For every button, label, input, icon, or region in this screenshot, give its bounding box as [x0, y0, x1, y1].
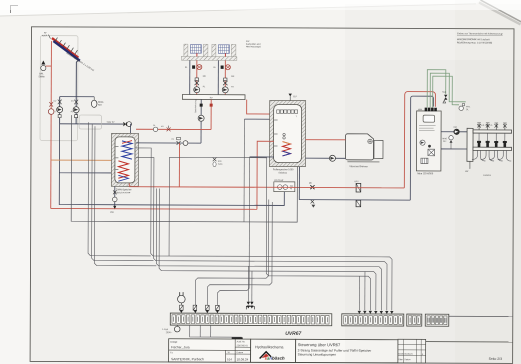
station control wires	[79, 115, 157, 266]
pump 2	[222, 87, 228, 93]
fresh water module P/L23	[274, 180, 295, 192]
svg-text:Steuerung Umwälzpumpen: Steuerung Umwälzpumpen	[298, 353, 337, 357]
taps to jumper bracket	[247, 266, 249, 302]
heat pump red loop	[404, 92, 435, 188]
svg-text:10.09.24: 10.09.24	[237, 357, 249, 361]
terminal strip group B	[342, 314, 404, 326]
stove heat exchanger 1	[190, 45, 201, 57]
pressure gauge	[459, 103, 471, 111]
big routing line	[169, 157, 267, 263]
buffer to boiler flow pipe	[306, 139, 346, 141]
svg-text:Koll.F.: Koll.F.	[42, 35, 48, 37]
earth symbol circle below strip	[162, 325, 180, 334]
terminal strip group C	[407, 314, 422, 326]
buffer left gray return	[250, 156, 274, 158]
svg-text:Hydraulikschema: Hydraulikschema	[255, 345, 284, 349]
solar station header wire	[60, 96, 94, 98]
solar pump line A (x=63.5)	[53, 97, 63, 124]
solar return from tank lower coil	[59, 124, 111, 173]
storage loading pump	[194, 100, 204, 122]
svg-text:Fischer_Jora: Fischer_Jora	[171, 345, 190, 349]
svg-text:DFL: DFL	[39, 74, 44, 76]
valve on red stove-tank pipe	[161, 126, 171, 132]
terminal strip group D	[425, 314, 449, 326]
svg-text:Solar KV: Solar KV	[107, 122, 116, 124]
stove collector box	[182, 95, 245, 100]
stove wall hatching	[181, 44, 237, 60]
svg-text:Steuerung über UVR67: Steuerung über UVR67	[298, 342, 341, 347]
electric insert row top	[277, 110, 298, 113]
terminal strip group A	[170, 313, 332, 326]
solar feed line to TWIN tank	[60, 123, 123, 125]
title block revision table	[398, 339, 426, 363]
safety valve SV	[442, 92, 447, 103]
drain on gray main	[311, 200, 316, 208]
title block logo cell	[251, 339, 296, 362]
crossing wires from module area to left terminals	[195, 199, 365, 314]
collector sensor KF	[42, 33, 51, 39]
mixer 2	[223, 81, 227, 85]
heating circuits	[472, 123, 511, 161]
orange pipe lower	[59, 173, 284, 206]
svg-text:KW: KW	[246, 41, 249, 43]
page corner fold top right	[481, 0, 521, 22]
svg-text:50 l: 50 l	[98, 105, 102, 107]
collector zone boundary	[40, 36, 78, 141]
buffer sensors	[274, 120, 278, 146]
svg-text:514: 514	[227, 357, 232, 361]
pump 1	[194, 87, 200, 93]
svg-text:Speicherladung: Speicherladung	[194, 100, 197, 113]
red riser from stove-tank junction down to solar line	[178, 143, 180, 187]
red main pipe buffer to heat pump	[129, 187, 404, 188]
stove note text	[246, 41, 262, 48]
svg-text:Pufferspeicher 1000: Pufferspeicher 1000	[273, 168, 294, 171]
stove circuit 2 pipes	[213, 60, 235, 94]
cold water inlet below TWIN tank	[110, 186, 117, 214]
pump fitting on red main	[354, 181, 360, 192]
note text block top right	[457, 32, 503, 44]
lower coil	[118, 161, 128, 178]
svg-text:Solarbox: Solarbox	[278, 171, 288, 174]
expansion vessel MAG 50	[91, 97, 103, 108]
svg-text:Fk: Fk	[153, 125, 155, 127]
stove box to buffer upper pipes	[247, 100, 275, 114]
red solar pipe 2 lower	[51, 207, 257, 210]
registration mark top left	[11, 6, 19, 14]
solar flow pipe (red, from collector left end)	[50, 41, 53, 208]
stove circuit 1 pipes	[185, 60, 207, 94]
stove to tank pipes	[136, 128, 211, 130]
svg-text:UVR67: UVR67	[285, 331, 301, 337]
svg-text:MAG: MAG	[98, 101, 103, 104]
upper coil	[122, 141, 132, 159]
flow manifold bar	[473, 130, 512, 133]
bus wires below strip	[190, 325, 242, 337]
mains plug	[178, 292, 186, 309]
solar return pipe (dark, from collector right end)	[76, 60, 79, 97]
hydraulic separator	[465, 128, 473, 173]
buffer to boiler return with pump	[305, 155, 345, 161]
valve and pump on red solar line	[48, 102, 54, 114]
solar collector	[52, 38, 95, 73]
valve and pump on gray stove-tank pipe	[172, 137, 188, 145]
expansion vessel MAG 25	[442, 136, 453, 149]
scan shading	[345, 4, 521, 364]
svg-text:5l/Min: 5l/Min	[39, 76, 46, 78]
return manifold bar	[473, 147, 512, 150]
buffer tank Pufferspeicher	[269, 100, 305, 174]
drops from collector box	[200, 99, 213, 143]
svg-text:Hahn: Hahn	[218, 164, 223, 166]
pipe unit to separator with pump	[441, 127, 467, 149]
flow meter DFL	[39, 61, 52, 79]
heat pump dark loop	[410, 96, 433, 200]
solar pump line B (x=77.5)	[71, 97, 80, 124]
gray main pipe to heat pump	[299, 199, 410, 201]
green safety lines	[427, 70, 466, 108]
jumper bracket	[246, 302, 254, 310]
fuse boxes above strip	[180, 305, 220, 310]
control wire bundle from solar/tank area to right terminals	[135, 148, 392, 311]
logo	[260, 352, 272, 359]
mixer 1	[195, 81, 199, 85]
routing rectangle wires	[169, 157, 267, 263]
svg-text:TWIN-Speicher: TWIN-Speicher	[116, 188, 132, 191]
tank feed valve group	[107, 122, 132, 134]
fitting on gray main	[356, 200, 361, 207]
svg-text:Anlage: Anlage	[170, 341, 178, 344]
title block table left	[169, 339, 251, 362]
short sensor branches	[358, 276, 360, 310]
svg-text:40: 40	[290, 188, 292, 190]
gas boiler	[345, 134, 383, 168]
heat pump unit Nibe	[416, 108, 441, 176]
svg-text:Herd wassergef.: Herd wassergef.	[246, 45, 262, 48]
svg-text:230V~: 230V~	[166, 332, 173, 334]
red pipe into tank left	[51, 159, 111, 161]
svg-text:sanbösch: sanbösch	[265, 356, 285, 361]
Fk sensor circle on red pipe	[153, 125, 158, 132]
buffer left red feed	[257, 141, 274, 209]
svg-text:22/07/05-01: 22/07/05-01	[237, 345, 249, 347]
buffer vent valve	[288, 94, 297, 101]
TWIN-Speicher tank	[111, 133, 138, 194]
bottom right row line	[426, 341, 513, 343]
svg-text:Ausf.-Nr.: Ausf.-Nr.	[237, 340, 246, 343]
stove heat exchanger 2	[218, 45, 229, 57]
dark control loop	[71, 115, 297, 222]
buffer coil	[282, 142, 290, 156]
svg-text:1-16A: 1-16A	[162, 328, 168, 331]
earth block	[232, 337, 243, 340]
title block text cell	[296, 339, 398, 363]
valve on red main	[309, 183, 315, 190]
wire arrows onto terminals	[180, 310, 394, 314]
svg-text:SANTEXNIK, Purbach: SANTEXNIK, Purbach	[171, 357, 204, 361]
svg-text:Datum: Datum	[237, 351, 244, 354]
sensor marks	[115, 146, 118, 169]
svg-text:P/L23 HP: P/L23 HP	[274, 180, 284, 182]
long wire to terminal strip right	[449, 315, 513, 317]
KFE drain valve	[213, 158, 223, 167]
